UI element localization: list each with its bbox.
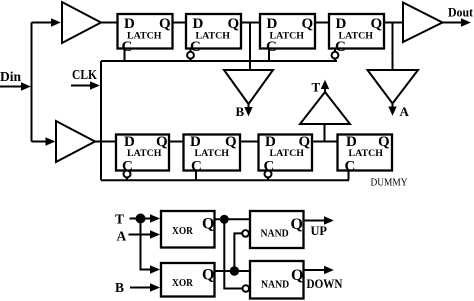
svg-text:Q: Q (371, 16, 383, 32)
wire buffer to latch L5 (95, 141, 116, 143)
wire L8 bottom C stub (348, 171, 350, 181)
svg-text:NAND: NAND (261, 280, 290, 291)
svg-text:D: D (124, 16, 135, 32)
svg-text:Din: Din (0, 69, 22, 84)
wire T output arrow (324, 89, 326, 92)
wire clock trunk vertical (100, 61, 102, 180)
buffer bottom input (56, 121, 95, 162)
svg-text:A: A (400, 104, 410, 119)
wire L7.Q to L8.D with T tap (312, 141, 338, 143)
wire XOR1.Q cross to NAND2 bubble (224, 219, 242, 288)
wire L3.Q to L4.D (315, 22, 329, 24)
svg-text:C: C (345, 158, 356, 174)
wire B input line (130, 287, 150, 289)
svg-text:D: D (346, 134, 357, 150)
junction XOR2.Q dot (230, 266, 239, 275)
bubble NAND2 inverted input (243, 285, 250, 292)
bubble L2 top inverted clock (190, 49, 192, 52)
bubble L5 bottom inverted clock (126, 170, 128, 172)
wire XOR2.Q to NAND2 (215, 270, 251, 272)
wire L4.Q to output buffer (384, 22, 403, 24)
wire Din input arrow (0, 86, 21, 88)
latch L3 top (260, 14, 315, 55)
wire DOWN output arrow (304, 269, 325, 271)
svg-text:B: B (236, 104, 245, 119)
svg-text:D: D (193, 16, 204, 32)
svg-text:XOR: XOR (172, 226, 193, 237)
svg-text:D: D (190, 134, 201, 150)
wire Din trunk vertical (31, 23, 33, 142)
svg-text:Q: Q (156, 134, 168, 150)
wire buffer to latch L1 (101, 22, 118, 24)
bubble NAND1 inverted input (242, 230, 249, 237)
wire B output arrow (248, 104, 250, 107)
wire A output arrow (392, 104, 394, 107)
svg-text:Q: Q (299, 134, 311, 150)
svg-text:DOWN: DOWN (307, 277, 343, 291)
gate XOR U2 (161, 263, 215, 297)
svg-text:CLK: CLK (72, 67, 97, 82)
junction XOR1.Q dot (220, 215, 229, 224)
wire A input line (129, 234, 151, 236)
wire L5.Q to L6.D (169, 141, 184, 143)
svg-text:T: T (115, 212, 124, 227)
svg-text:XOR: XOR (172, 278, 193, 289)
svg-text:T: T (312, 80, 321, 95)
bubble L4 top inverted clock (334, 49, 336, 52)
gate NAND U3 (250, 211, 304, 248)
latch L1 top (118, 14, 173, 55)
svg-text:D: D (265, 134, 276, 150)
buffer T (tap up) (300, 92, 350, 124)
wire L3 top C stub (268, 49, 270, 62)
gate XOR U1 (161, 211, 215, 248)
wire trunk to top buffer (32, 22, 52, 24)
wire T branch down to XOR2 (141, 219, 151, 270)
svg-text:D: D (124, 134, 135, 150)
svg-text:UP: UP (311, 224, 328, 238)
wire T tap stub (324, 124, 326, 142)
junction T dot (136, 214, 146, 224)
buffer top input (62, 2, 101, 43)
wire bottom clock rail (101, 179, 349, 181)
latch L6 bottom (184, 134, 241, 174)
wire L6.Q to L7.D (240, 141, 259, 143)
wire Dout arrow (443, 22, 462, 24)
wire L6 bottom C stub (195, 171, 197, 181)
wire top clock rail (101, 60, 337, 62)
buffer A (tap down) (368, 70, 419, 104)
bubble L7 bottom inverted clock (267, 170, 269, 172)
wire L2.Q to L3.D (241, 22, 260, 24)
svg-text:D: D (267, 16, 278, 32)
wire trunk to bottom buffer (32, 141, 46, 143)
svg-text:D: D (336, 16, 347, 32)
latch L4 top (329, 14, 384, 55)
svg-text:Q: Q (228, 16, 240, 32)
wire XOR1.Q to NAND1 (215, 218, 251, 220)
svg-text:B: B (115, 280, 124, 295)
wire A tap stub (392, 23, 394, 71)
buffer B (inverting tap down) (224, 70, 273, 104)
svg-text:NAND: NAND (261, 229, 290, 240)
svg-text:Q: Q (159, 16, 171, 32)
svg-text:C: C (266, 39, 277, 55)
wire L1 top C stub (124, 49, 126, 62)
svg-text:Dout: Dout (448, 5, 474, 20)
latch L5 bottom (116, 134, 169, 174)
latch L2 top (186, 14, 241, 55)
svg-text:Q: Q (291, 267, 303, 284)
svg-text:Q: Q (291, 216, 303, 233)
svg-text:A: A (117, 229, 127, 244)
latch L8 bottom dummy (338, 134, 393, 174)
wire L1.Q to L2.D (173, 22, 187, 24)
svg-text:Q: Q (378, 134, 390, 150)
buffer output Dout (403, 3, 443, 43)
svg-text:Q: Q (225, 134, 237, 150)
svg-text:LATCH: LATCH (270, 149, 305, 159)
wire XOR2.Q cross to NAND1 bubble (234, 233, 241, 271)
svg-text:C: C (122, 39, 133, 55)
svg-text:Q: Q (202, 267, 214, 284)
svg-text:Q: Q (202, 216, 214, 233)
wire UP output arrow (304, 220, 325, 222)
wire T input line (130, 218, 151, 220)
latch L7 bottom (259, 134, 313, 174)
svg-text:Q: Q (302, 16, 314, 32)
svg-text:DUMMY: DUMMY (371, 177, 408, 189)
gate NAND U4 (250, 261, 304, 299)
wire B tap stub (249, 23, 251, 71)
wire CLK input arrow (71, 85, 90, 87)
